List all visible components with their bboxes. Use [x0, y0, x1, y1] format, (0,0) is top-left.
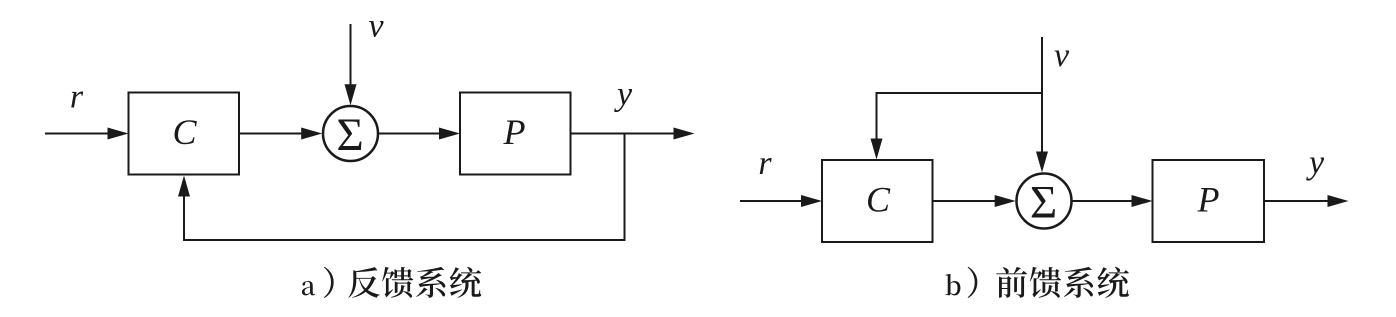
- svg-text:C: C: [172, 112, 197, 152]
- svg-text:r: r: [70, 79, 84, 116]
- svg-text:P: P: [503, 112, 526, 152]
- svg-text:v: v: [368, 8, 384, 45]
- svg-text:v: v: [1054, 37, 1070, 74]
- svg-text:y: y: [614, 76, 633, 113]
- svg-text:Σ: Σ: [336, 109, 363, 161]
- svg-text:r: r: [758, 145, 772, 182]
- svg-text:y: y: [1306, 145, 1325, 182]
- svg-text:P: P: [1197, 180, 1220, 220]
- svg-text:C: C: [866, 180, 891, 220]
- svg-text:Σ: Σ: [1030, 177, 1057, 229]
